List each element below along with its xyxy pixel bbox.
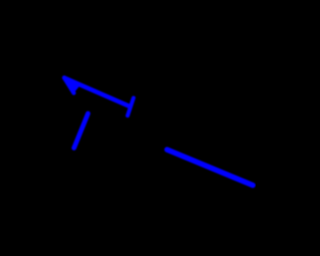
arrow A1 tail tee bar [128, 98, 134, 116]
segment S2 [74, 114, 88, 149]
arrow A1 shaft [65, 78, 130, 106]
arrow A1 head wedge fill [64, 78, 80, 93]
arrow A1 head barb [64, 78, 74, 93]
segment S3 long [167, 150, 253, 186]
